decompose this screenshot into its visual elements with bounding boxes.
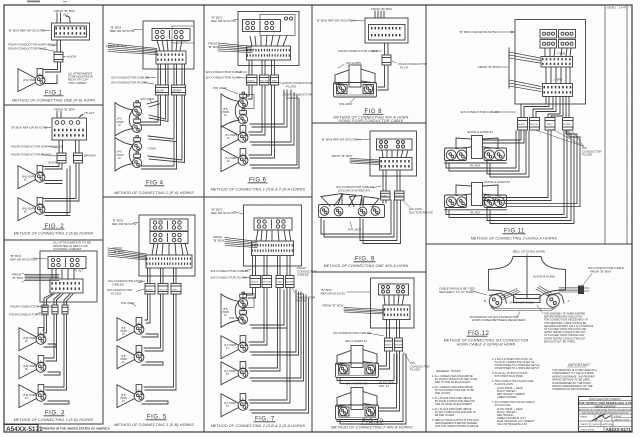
wires strip upper to lower [546, 67, 570, 83]
40V-A horn assembly 1 [336, 346, 379, 378]
terminal strip [383, 305, 410, 320]
wire plug1 to horn1 [43, 163, 59, 167]
label FROM B BOX [208, 42, 220, 50]
plug RED [171, 284, 181, 295]
label B BOX REF [110, 26, 135, 34]
enclosure [143, 21, 194, 69]
horn pair [221, 292, 248, 327]
wire loop horn pair [250, 90, 287, 127]
wire plug1 to horn1 [43, 314, 44, 330]
receiver B [489, 295, 502, 308]
label FROM B BOX [12, 273, 24, 281]
note all attachments [67, 72, 93, 85]
gong 1 right wing [483, 138, 499, 149]
wires relay to strip [256, 230, 291, 241]
wire horn2 loop [142, 362, 163, 365]
gong 1 base [445, 162, 507, 164]
terminal block TB [52, 23, 90, 40]
relay box [254, 218, 292, 230]
horn 1 [19, 328, 46, 351]
label also see fig12 [378, 381, 395, 388]
twin 40V-A right unit wings [350, 196, 363, 207]
wire plug1 to horn1 [145, 294, 150, 323]
scale cell [603, 427, 605, 432]
divider col1 bottom strip [4, 423, 103, 425]
receiver 1 [320, 207, 329, 216]
horn 1 [18, 166, 45, 189]
wire plug2 to horn A [249, 288, 267, 346]
relay box [379, 284, 409, 295]
divider fig11/bottom-right [426, 243, 632, 245]
wire plug to horn [378, 65, 388, 90]
approval row cells [589, 421, 591, 427]
wire plug2 to horn2 [43, 163, 76, 199]
wire horn2 loop [44, 372, 60, 375]
enclosure [515, 20, 586, 105]
wires relay to strip [157, 40, 182, 51]
label cable should be tied [439, 287, 476, 294]
diagonal cable bundle left receiver to center [499, 289, 520, 301]
hatched cable from B box [225, 238, 257, 248]
enclosure [370, 131, 417, 176]
wire loop assembly2 [337, 354, 406, 424]
receiver 3 [358, 207, 367, 216]
plug BLACK [247, 75, 258, 85]
wire cables strip to plugs [248, 60, 250, 75]
label six conductor plugs [582, 146, 602, 157]
column divider 2 [203, 5, 205, 432]
terminal strip upper [541, 57, 573, 68]
label four-conductor plug [398, 62, 428, 69]
terminal strip [50, 279, 83, 293]
wire plugs 1-2 into gong1 [483, 130, 524, 143]
plug BROWN [563, 118, 574, 131]
signature scribble [592, 415, 611, 421]
connector plug [382, 55, 391, 65]
horn 3 [117, 385, 144, 408]
connector plug P2 [74, 153, 83, 163]
wire loop horn B [250, 95, 299, 168]
label four-conductor plugs [296, 292, 316, 303]
wire loop assembly1 [337, 354, 397, 384]
wire cables strip to plugs [382, 170, 384, 191]
divider fig9/fig10 [312, 271, 426, 273]
wire loop horn C [250, 295, 309, 413]
label six-conductor plugs [410, 361, 430, 372]
wire bundle to plugs [521, 97, 549, 118]
relay box 3 [540, 40, 557, 49]
wire plug2 to assembly2 [380, 351, 400, 411]
label FROM B BOX [113, 246, 125, 254]
horn A [221, 336, 248, 359]
receiver 2 [334, 207, 343, 216]
wire from B box [56, 13, 58, 23]
plug BLACK [518, 118, 528, 131]
plug BLACK [381, 191, 391, 200]
wires relay to strip [382, 150, 408, 158]
label B BOX REF [112, 219, 137, 227]
wire horn pair loops [142, 101, 161, 125]
relay box 2 [559, 30, 576, 39]
wire top feeds [56, 112, 58, 119]
terminal strip [252, 241, 294, 256]
horn pair 2 [115, 136, 142, 171]
wire plug1 to horn pair [247, 288, 256, 299]
gong 2 left housing [445, 195, 467, 208]
revision strip line left [604, 5, 606, 244]
cable connector dark [578, 286, 584, 295]
wire strip to plugs [386, 320, 388, 339]
gong 1 receivers [446, 150, 456, 160]
gong assembly 1 center column [472, 136, 483, 159]
label six-conductor cable from B box [588, 266, 625, 273]
wire cables strip to plugs [147, 268, 149, 284]
gong 2 receivers [446, 197, 456, 207]
gong 2 left wing [456, 185, 472, 196]
divider fig2/fig3 [4, 239, 103, 241]
wire horn1 loop [142, 334, 158, 337]
horn pair 1 [115, 101, 142, 136]
signature cell lines [594, 414, 596, 421]
horn 2 [19, 356, 46, 379]
wire loop horn A [250, 90, 294, 145]
plug RED [545, 118, 555, 131]
plug YELLOW [262, 276, 272, 288]
horn C [221, 394, 248, 417]
hatched cable from B box [218, 43, 252, 53]
six-conductor cable to right [559, 288, 578, 293]
gong mount rect [514, 295, 541, 303]
wire horn1 loop [44, 344, 56, 347]
twin horn center posts [341, 194, 343, 205]
label B BOX REF [10, 254, 37, 262]
wire block to plug [384, 43, 386, 55]
horn pair [221, 92, 248, 127]
gong center line [526, 257, 528, 299]
plug 1 [42, 305, 48, 314]
wires relay to strip [250, 36, 287, 47]
wire TO ALT [66, 16, 70, 23]
wires bracket to strips [509, 52, 541, 92]
horn 2 [117, 346, 144, 369]
wire cables to units [383, 200, 386, 203]
gong-B bell butterfly [489, 257, 566, 299]
wires relay to strip [51, 269, 53, 280]
hatched cable from B box [25, 275, 59, 281]
label four-conductor cables [283, 93, 313, 101]
divider fig8/fig9 [312, 122, 426, 124]
wires relay to strip [384, 295, 404, 305]
connector plug P1 [57, 153, 66, 163]
label six-conductor horn cables [108, 279, 144, 287]
hatched cable from B box [344, 308, 384, 315]
relay box upper [150, 219, 188, 231]
plug 3 [62, 305, 68, 314]
plug YELLOW [530, 118, 540, 131]
gong 1 left housing [445, 148, 467, 161]
label four-conductor plugs [283, 81, 313, 89]
relay box [377, 139, 413, 150]
40V horn assembly [334, 65, 377, 97]
B box outer [365, 18, 408, 43]
horn B [221, 362, 248, 385]
relay box [152, 29, 190, 41]
scan smudge top edge [27, 1, 40, 3]
twin 40V-A horn left unit wings [321, 194, 342, 207]
column divider 1 [102, 5, 104, 424]
connector plug P1 [54, 52, 63, 62]
enclosure [244, 205, 302, 266]
diagonal cable right [536, 286, 552, 297]
junction box above horn pair [243, 294, 254, 308]
wire loops gong2 [446, 131, 567, 218]
wire horn3 loop [44, 401, 69, 404]
horn A [221, 126, 248, 149]
enclosure [40, 251, 97, 302]
relay box 1 [540, 30, 557, 39]
wire plug to horn [43, 62, 58, 70]
wire plug2 to horn2 [45, 314, 54, 358]
wire plug3 to horn3 [45, 314, 64, 387]
wire cables strip to plugs [252, 256, 254, 276]
hatched cable from B box [108, 44, 157, 55]
divider fig4/fig5 [103, 196, 204, 198]
wire plug2 to horn2 [144, 294, 163, 351]
plug YELLOW [158, 284, 168, 295]
plug BLACK [156, 85, 169, 95]
wire block to plug [56, 40, 58, 52]
relay box B overlay [260, 15, 295, 36]
divider fig6/fig7 [204, 196, 312, 198]
plug YELLOW [260, 75, 270, 85]
wires strip to plugs [44, 294, 54, 305]
wire bundle right [147, 95, 161, 107]
wire loop horn B [250, 292, 304, 381]
relay box 4 [559, 40, 576, 49]
terminal strip [156, 51, 186, 64]
horn 3 [19, 385, 46, 408]
wire plug3 to horn B [249, 288, 280, 372]
gong assembly 2 center column [472, 183, 483, 206]
plug 2 [52, 305, 58, 314]
plug BROWN [395, 338, 403, 351]
wire block to plugs [58, 140, 60, 153]
receiver A [547, 295, 560, 308]
B box inner terminal field [369, 25, 406, 41]
wire horn3 loop [142, 401, 168, 404]
horn B [221, 149, 248, 172]
plug RED [276, 276, 284, 288]
horn P-6 [18, 69, 45, 92]
wire plugs 3-4 descent [483, 130, 551, 201]
wire plug4 to horn C [249, 288, 290, 404]
relay box [48, 257, 86, 269]
label FROM B BOX [213, 235, 225, 243]
title block frame [579, 397, 633, 432]
gong 2 right housing [484, 195, 507, 208]
revision strip line right [626, 5, 628, 244]
relay box lower [150, 232, 188, 244]
wire loop horn A [250, 290, 299, 355]
terminal strip [247, 46, 291, 60]
terminal strip [380, 158, 413, 171]
note all attachments [52, 241, 92, 252]
wire plug1 to assembly1 [380, 351, 390, 369]
wire loops gong1 [446, 131, 519, 171]
wire loops lower [321, 200, 394, 237]
wires relays to strip upper [545, 48, 571, 56]
receiver 4 [371, 207, 380, 216]
row lines [579, 400, 633, 402]
plug BLACK [385, 338, 393, 351]
plug BLACK [145, 284, 155, 295]
plug BROWN [172, 85, 186, 95]
column divider 3 [311, 5, 313, 432]
wire cables strip to plugs [157, 64, 159, 85]
label four-conductor cables [297, 266, 317, 277]
wire loop horn pair [250, 290, 287, 328]
terminal strip lower [543, 84, 573, 97]
horn 2 [18, 198, 45, 221]
wire plug3 to horn B [249, 85, 275, 158]
label B BOX REF [321, 288, 346, 296]
gong 2 right wing [483, 185, 499, 196]
wire plug2 to horn A [249, 85, 265, 135]
terminal block TB [52, 118, 87, 140]
junction box above horn pair [243, 95, 254, 109]
gong 1 left wing [456, 138, 472, 149]
drawing number box bottom left [4, 425, 38, 433]
enclosure [238, 12, 299, 66]
wire plug3 to horn3 [144, 294, 176, 390]
note the assembly [543, 313, 594, 344]
divider fig1/fig2 [4, 104, 103, 106]
gong 2 base [445, 209, 507, 211]
wire plug1 to horn pair [247, 85, 252, 99]
plug BLACK [250, 276, 261, 288]
label six-conductor cables [336, 185, 374, 192]
wires from B box [374, 11, 376, 18]
wires relay to strip [152, 243, 188, 255]
terminal strip [146, 255, 192, 268]
40V-A horn assembly 2 [336, 388, 379, 420]
label B BOX REF [211, 16, 236, 24]
hatched cable from B box [350, 159, 380, 165]
horn 1 [117, 318, 144, 341]
cable entry bracket [508, 48, 510, 88]
plug RED [271, 75, 279, 85]
cable between receivers [490, 306, 556, 311]
gong 1 right housing [484, 148, 507, 161]
receiver housings row [319, 205, 385, 218]
label six-conductor plugs [409, 207, 433, 214]
hatched cable from B box [108, 248, 146, 260]
plug BROWN [286, 276, 295, 288]
enclosure [371, 278, 415, 328]
plug BROWN [395, 191, 405, 200]
label six-conductor plugs [107, 288, 133, 296]
column divider 4 [425, 5, 427, 432]
label B BOX REF [211, 208, 236, 216]
label extension of six-conductor [470, 315, 525, 322]
enclosure [139, 215, 195, 276]
relay box A [243, 20, 281, 32]
